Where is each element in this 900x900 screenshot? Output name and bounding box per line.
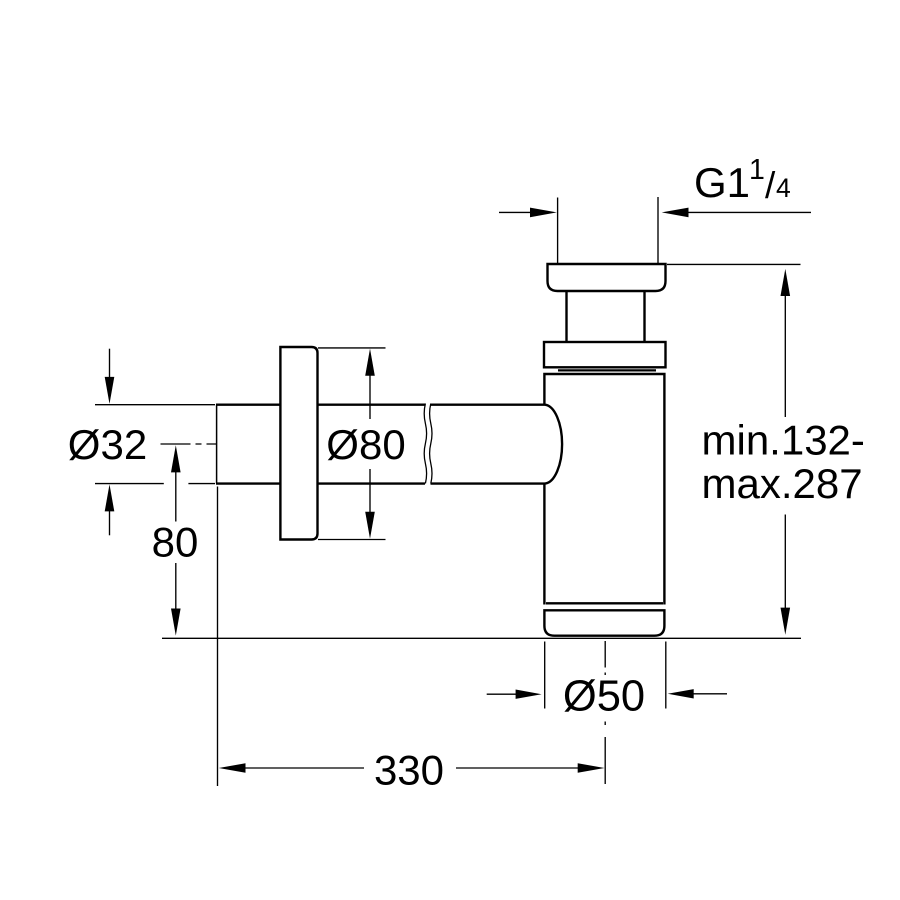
dimension Ø50 extension lines [545, 642, 666, 709]
bottom reference line [162, 637, 801, 639]
label G1 1/4 [694, 154, 791, 206]
dimension G1 1/4 right arrow [662, 208, 811, 218]
dimension 80 line and arrows [171, 445, 181, 635]
body bottom cap [544, 610, 664, 635]
svg-text:1: 1 [749, 154, 765, 186]
svg-text:Ø80: Ø80 [326, 421, 405, 468]
dimension min.132-max.287 line and arrows [781, 269, 791, 635]
dimension Ø50 arrows [487, 689, 727, 699]
svg-text:max.287: max.287 [702, 460, 863, 507]
dimension G1 1/4 left arrow [499, 208, 557, 218]
inlet pipe left end cap [216, 405, 218, 484]
svg-text:min.132-: min.132- [702, 417, 865, 464]
svg-text:Ø50: Ø50 [563, 672, 645, 720]
svg-text:330: 330 [374, 746, 444, 793]
pipe break symbol [424, 404, 432, 484]
svg-text:80: 80 [152, 518, 199, 565]
trap body (cup) [544, 374, 664, 605]
dimension Ø80 extension lines [318, 348, 386, 540]
inlet pipe [216, 405, 545, 484]
centerline body axis [604, 641, 606, 784]
wall flange [280, 347, 317, 540]
dimension G1 1/4 extension lines [558, 197, 658, 263]
dimension Ø32 extension lines [95, 405, 215, 484]
connector neck [567, 291, 645, 342]
svg-text:4: 4 [776, 173, 791, 203]
top flange [548, 264, 666, 291]
washer under nut [558, 369, 656, 371]
svg-text:Ø32: Ø32 [68, 421, 147, 468]
union nut [544, 342, 666, 367]
svg-text:/: / [765, 165, 776, 206]
centerline pipe axis [161, 443, 217, 445]
dimension Ø32 arrows [105, 349, 115, 536]
dimension 330 line and arrows [219, 763, 605, 773]
min/max top reference line [667, 263, 801, 265]
label min.132-max.287 [702, 417, 865, 508]
svg-text:G1: G1 [694, 159, 750, 206]
dimension Ø80 line and arrows [365, 349, 375, 539]
dimension 330 extension line [217, 487, 219, 787]
trap body connection dome [545, 405, 562, 484]
